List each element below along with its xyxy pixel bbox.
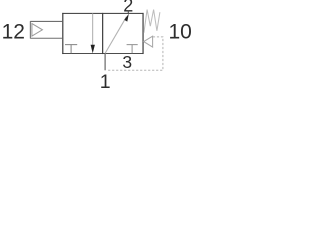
pneumatic 3/2-way valve schematic [0, 0, 192, 90]
valve body top edge [62, 12, 143, 14]
svg-text:3: 3 [122, 52, 132, 72]
left pilot box top [30, 20, 62, 22]
pilot dashed line from port 1 to right pilot [107, 37, 163, 70]
right cell blocked port T stem [131, 45, 133, 54]
left cell blocked port T bar [65, 44, 77, 46]
left cell flow line [92, 14, 94, 47]
return spring [144, 10, 160, 33]
left cell blocked port T stem [70, 45, 72, 54]
svg-text:12: 12 [2, 20, 25, 43]
svg-text:10: 10 [169, 20, 192, 43]
port 1 stub [104, 54, 106, 71]
port 2 stub [127, 11, 129, 14]
svg-text:1: 1 [100, 71, 111, 90]
left cell arrowhead (down) [91, 45, 95, 54]
left pilot box bottom [30, 37, 62, 39]
valve body right edge [142, 13, 144, 54]
valve body bottom edge [62, 53, 143, 55]
right cell diagonal flow line 1 to 2 [105, 17, 126, 54]
left pilot triangle [32, 24, 43, 37]
valve body left edge [62, 13, 64, 54]
right cell arrowhead (up along diagonal) [124, 14, 129, 22]
right pilot triangle [144, 36, 153, 47]
left pilot box left edge [29, 21, 31, 38]
right cell blocked port T bar [127, 44, 138, 46]
valve body divider [102, 13, 104, 54]
